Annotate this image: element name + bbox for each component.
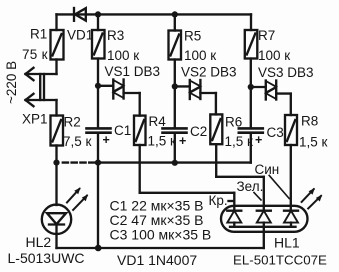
svg-text:100 к: 100 к — [107, 48, 139, 63]
node C1 mid-rail junction — [95, 160, 101, 166]
LED HL1 emission arrows — [302, 188, 323, 209]
node top-R5 junction — [172, 11, 178, 17]
svg-text:HL2: HL2 — [26, 234, 52, 250]
svg-text:VS2 DB3: VS2 DB3 — [181, 65, 237, 80]
svg-text:VD1 1N4007: VD1 1N4007 — [117, 252, 197, 268]
svg-text:C3 100 мк×35 В: C3 100 мк×35 В — [110, 227, 212, 243]
resistor R4 — [134, 116, 146, 145]
svg-text:R7: R7 — [258, 28, 275, 43]
resistor R3 — [92, 30, 105, 59]
svg-text:HL1: HL1 — [274, 235, 300, 251]
node bottom-C1 junction — [95, 245, 102, 252]
svg-text:Син: Син — [255, 162, 280, 177]
svg-text:C3: C3 — [267, 125, 284, 140]
diac VS3 — [251, 81, 291, 100]
svg-text:R2: R2 — [64, 115, 81, 130]
svg-text:1,5 к: 1,5 к — [299, 135, 328, 150]
svg-text:C1: C1 — [114, 123, 131, 138]
diode HL1 green — [257, 211, 271, 227]
svg-text:R5: R5 — [184, 29, 201, 44]
svg-text:L-5013UWC: L-5013UWC — [8, 250, 85, 266]
node VS1 tap — [95, 83, 101, 89]
svg-text:R8: R8 — [301, 114, 318, 129]
capacitor C3 — [239, 128, 263, 132]
svg-text:VS3 DB3: VS3 DB3 — [258, 65, 314, 80]
diode VD1 — [74, 8, 86, 21]
svg-text:7,5 к: 7,5 к — [63, 134, 92, 149]
svg-text:+: + — [103, 133, 110, 147]
svg-text:Кр.: Кр. — [209, 193, 228, 208]
LED HL2 emission arrows — [67, 187, 88, 210]
svg-text:1,5 к: 1,5 к — [148, 134, 177, 149]
wire R2 to node A — [55, 146, 57, 206]
connector XP1 — [26, 68, 57, 106]
diode HL1 red — [227, 211, 241, 227]
resistor R1 — [51, 30, 64, 60]
node top-R3 junction — [95, 11, 101, 17]
svg-text:1,5 к: 1,5 к — [225, 134, 254, 149]
LED HL2 — [42, 205, 71, 234]
wire HL1 common to bottom rail — [263, 227, 265, 248]
wire R3 to C1 — [97, 59, 99, 128]
node A (R2/HL2/dashed) — [53, 160, 59, 166]
node VS2 tap — [172, 83, 178, 89]
wire C3 to mid rail — [250, 133, 252, 163]
svg-text:VD1: VD1 — [67, 28, 93, 43]
wire R3 top — [97, 14, 99, 30]
svg-text:+: + — [179, 134, 186, 148]
wire mid rail — [98, 161, 251, 163]
svg-text:R4: R4 — [149, 114, 167, 129]
wire R5 to C2 — [174, 60, 176, 128]
wire dashed link — [63, 161, 95, 163]
resistor R5 — [169, 31, 182, 60]
svg-text:VS1 DB3: VS1 DB3 — [105, 64, 161, 79]
wire R1 to plug — [55, 60, 57, 75]
svg-text:100 к: 100 к — [258, 48, 290, 63]
node VS3 tap — [248, 84, 254, 90]
resistor R2 — [51, 116, 64, 146]
svg-text:XP1: XP1 — [22, 112, 48, 127]
wire plug to R2 — [55, 100, 57, 116]
diac VS2 — [175, 80, 216, 99]
wire R5 top — [174, 14, 176, 30]
svg-text:C2: C2 — [190, 124, 207, 139]
resistor R8 — [285, 115, 297, 145]
svg-text:R1: R1 — [30, 27, 47, 42]
resistor R6 — [210, 114, 222, 144]
wire VS2 to R6 — [215, 93, 217, 114]
capacitor C2 — [163, 128, 187, 132]
wire R8 to HL1 blue — [290, 145, 292, 211]
capacitor C1 — [87, 128, 111, 132]
wire R7 to C3 — [250, 59, 252, 128]
wire R6 to HL1 green — [216, 144, 264, 211]
svg-text:R3: R3 — [107, 28, 124, 43]
svg-text:+: + — [255, 133, 262, 147]
svg-text:100 к: 100 к — [184, 48, 216, 63]
wire C2 to mid rail — [174, 133, 176, 163]
wire R4 to HL1 red — [140, 145, 235, 211]
svg-text:EL-501TCC07E: EL-501TCC07E — [233, 253, 327, 268]
wire R7 top — [250, 14, 252, 30]
LED assembly HL1 — [221, 206, 308, 232]
resistor R7 — [245, 30, 257, 59]
node C2 mid-rail junction — [172, 160, 178, 166]
wire VS3 to R8 — [290, 94, 292, 115]
svg-text:~220 В: ~220 В — [4, 61, 19, 104]
svg-text:Зел.: Зел. — [237, 179, 264, 194]
wire R1 top — [55, 14, 57, 30]
wire HL2 to bottom rail — [55, 234, 57, 248]
wire HL1 common — [230, 226, 296, 228]
svg-text:75 к: 75 к — [22, 47, 48, 62]
wire top rail — [57, 13, 252, 15]
diode HL1 blue — [284, 211, 298, 227]
diac VS1 — [98, 80, 140, 99]
wire C1 to bottom rail — [97, 133, 99, 248]
wire VS1 to R4 — [139, 93, 141, 116]
wire bottom rail — [57, 247, 264, 249]
